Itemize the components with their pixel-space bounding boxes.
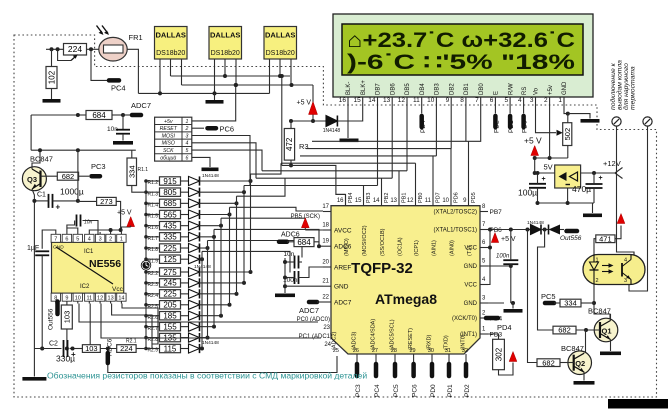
svg-text:6: 6 <box>65 237 68 243</box>
capacitor 10n (ADC6) <box>284 251 303 269</box>
svg-text:2: 2 <box>596 278 599 284</box>
net label PD2 (LCD) <box>493 104 500 133</box>
svg-text:(XTAL2/TOSC2): (XTAL2/TOSC2) <box>434 210 477 216</box>
svg-text:100µ: 100µ <box>518 188 537 198</box>
svg-text:302: 302 <box>494 347 503 361</box>
svg-text:PC5: PC5 <box>541 292 556 301</box>
svg-text:103: 103 <box>62 311 71 324</box>
svg-text:805: 805 <box>163 188 177 197</box>
net label PC6 <box>208 125 235 134</box>
wire opto pin2 down <box>592 285 610 319</box>
svg-text:PC6: PC6 <box>412 384 419 397</box>
svg-text:GND: GND <box>464 264 478 270</box>
wire Q2 collector to Q1 base <box>585 330 587 353</box>
svg-text:1N4148: 1N4148 <box>202 340 219 346</box>
svg-text:14: 14 <box>368 97 376 104</box>
clock icon on ladder rail <box>141 260 151 270</box>
svg-text:1N4148: 1N4148 <box>194 264 211 270</box>
svg-text:(ADC5/SCL): (ADC5/SCL) <box>390 319 396 350</box>
svg-text:273: 273 <box>100 197 113 206</box>
photoresistor FR1 <box>97 26 143 62</box>
svg-text:(AIN1): (AIN1) <box>432 240 438 256</box>
svg-text:1: 1 <box>185 119 188 125</box>
svg-text:685: 685 <box>163 199 177 208</box>
svg-text:5V: 5V <box>544 163 553 172</box>
svg-text:Vo: Vo <box>534 87 540 95</box>
wire PC0 to NE556 pin10 <box>79 304 318 323</box>
wire FR1 right lead <box>127 49 138 93</box>
resistor 682 (Q2 base) <box>537 358 574 367</box>
svg-text:+5 V: +5 V <box>297 100 312 107</box>
svg-text:(OC1A): (OC1A) <box>398 237 404 256</box>
svg-text:1: 1 <box>120 237 123 243</box>
svg-text:1N4148: 1N4148 <box>202 173 219 179</box>
+5V arrow supply <box>524 136 542 176</box>
svg-text:DB1: DB1 <box>464 83 470 95</box>
temperature sensor U2 DALLAS DS18b20 <box>155 27 188 60</box>
net label PC3 <box>79 162 106 176</box>
svg-text:3: 3 <box>99 237 102 243</box>
svg-text:565: 565 <box>163 210 177 219</box>
svg-text:SCK: SCK <box>163 148 174 154</box>
svg-text:471: 471 <box>599 234 612 243</box>
svg-text:Q3: Q3 <box>27 175 37 184</box>
resistor 682 (PC3) <box>57 172 78 181</box>
svg-text:DB0: DB0 <box>479 83 485 95</box>
resistor 684 (ADC7) <box>86 111 112 120</box>
trimmer resistor 224 <box>64 44 87 56</box>
svg-text:102: 102 <box>47 70 56 84</box>
svg-text:VCC: VCC <box>464 246 477 252</box>
svg-text:PD1: PD1 <box>447 384 454 397</box>
svg-text:103: 103 <box>85 344 98 353</box>
svg-text:ADC6: ADC6 <box>334 244 352 251</box>
svg-text:225: 225 <box>163 290 177 299</box>
svg-text:18: 18 <box>322 223 329 229</box>
svg-text:2: 2 <box>544 97 548 104</box>
wire ISP MISO <box>192 143 256 178</box>
ATmega8 bottom pin numbers and functions <box>332 319 469 354</box>
wire Q2 emitter to ground <box>574 372 595 385</box>
wire NE556 pin11 down <box>88 304 92 351</box>
wire Q3 emitter down <box>32 189 34 349</box>
net label ADC7 top <box>112 101 151 117</box>
svg-text:PD0: PD0 <box>522 120 529 133</box>
svg-text:E: E <box>494 91 500 95</box>
capacitor 1uF <box>27 245 49 351</box>
NE556 pin stubs and numbers <box>51 232 126 304</box>
data bus staircase between LCD, ladder and ATmega <box>244 104 469 206</box>
svg-text:MOSI: MOSI <box>162 133 176 139</box>
svg-text:MISO: MISO <box>162 141 175 147</box>
svg-text:RESET: RESET <box>160 126 178 132</box>
resistor 684 (ADC6) <box>287 238 314 247</box>
svg-text:7: 7 <box>475 97 479 104</box>
svg-text:5: 5 <box>76 237 79 243</box>
backlight diode 1N4148 <box>323 116 341 135</box>
svg-text:(RXD): (RXD) <box>427 335 433 350</box>
net label PD1 (LCD) <box>508 104 515 133</box>
svg-text:Обозначения резисторов показан: Обозначения резисторов показаны в соотве… <box>47 371 367 381</box>
ground under 102 <box>43 89 61 103</box>
svg-text:245: 245 <box>163 279 177 288</box>
svg-text:+12V: +12V <box>603 159 621 168</box>
svg-text:DALLAS: DALLAS <box>155 31 185 40</box>
svg-text:DB4: DB4 <box>420 83 426 95</box>
svg-text:Q2: Q2 <box>575 359 585 368</box>
svg-text:(XTAL1/TOSC1): (XTAL1/TOSC1) <box>434 228 477 234</box>
svg-text:(ADC3): (ADC3) <box>352 331 358 350</box>
svg-text:3: 3 <box>185 133 188 139</box>
svg-text:PC3: PC3 <box>91 162 106 171</box>
svg-text:12: 12 <box>398 97 406 104</box>
wire LCD BLK- to ground <box>340 104 359 142</box>
temperature sensor U4 DALLAS DS18b20 <box>264 27 297 60</box>
svg-text:6: 6 <box>490 97 494 104</box>
svg-text:Out556: Out556 <box>48 308 55 330</box>
svg-text:435: 435 <box>163 221 177 230</box>
svg-text:PD4: PD4 <box>497 323 512 332</box>
net label PD4 right <box>486 318 512 332</box>
svg-text:335: 335 <box>163 233 177 242</box>
wire +5V node to R3 <box>289 119 326 129</box>
svg-text:275: 275 <box>163 268 177 277</box>
wire 684 left lead <box>31 113 86 150</box>
trimmer 502 contrast <box>536 104 572 158</box>
LCD display module with temperature readout <box>333 14 593 97</box>
svg-text:BC847: BC847 <box>561 344 584 353</box>
timer IC NE556 (IC1/IC2) <box>52 242 124 293</box>
capacitor 100n (VCC) <box>496 230 518 304</box>
svg-text:470µ: 470µ <box>572 184 591 194</box>
svg-text:GND: GND <box>562 81 568 95</box>
svg-text:16: 16 <box>339 97 347 104</box>
boiler connection note <box>609 60 637 110</box>
LCD pin labels 16..1 <box>339 80 568 104</box>
svg-text:+5 V: +5 V <box>501 236 516 243</box>
svg-text:R2.1: R2.1 <box>126 339 137 345</box>
svg-text:13: 13 <box>108 296 114 302</box>
svg-text:13: 13 <box>383 97 391 104</box>
svg-text:11: 11 <box>86 296 92 302</box>
svg-text:NE556: NE556 <box>89 258 121 270</box>
svg-text:4: 4 <box>518 97 522 104</box>
svg-text:3: 3 <box>624 278 627 284</box>
svg-text:PD5: PD5 <box>471 192 477 203</box>
svg-text:224: 224 <box>120 344 133 353</box>
ground for sensors <box>206 93 224 103</box>
svg-text:(AIN0): (AIN0) <box>450 240 456 256</box>
wire junction to PC4 <box>91 49 107 80</box>
svg-text:PB0: PB0 <box>418 193 424 203</box>
svg-text:BLK+: BLK+ <box>361 80 367 95</box>
svg-text:+: + <box>56 203 61 212</box>
ladder bus vertical and jog wires <box>202 163 323 348</box>
svg-text:Q1: Q1 <box>602 327 612 336</box>
microcontroller U1 ATmega8 TQFP-32 <box>331 206 480 354</box>
svg-text:334: 334 <box>127 165 136 178</box>
svg-text:10n: 10n <box>107 126 118 133</box>
wire node to trimmer <box>46 47 64 51</box>
sensor ground rail <box>138 91 269 95</box>
VCC riser <box>480 230 492 285</box>
ATmega8 right pin labels <box>434 204 503 339</box>
svg-text:PD3: PD3 <box>490 332 503 339</box>
svg-text:PC4: PC4 <box>111 84 126 93</box>
regulator ground rail <box>536 188 603 217</box>
svg-text:15: 15 <box>355 198 362 204</box>
svg-text:22: 22 <box>322 295 329 301</box>
svg-text:DALLAS: DALLAS <box>265 31 295 40</box>
svg-text:ADC7: ADC7 <box>131 101 151 110</box>
svg-text:205: 205 <box>163 301 177 310</box>
svg-text:+5 V: +5 V <box>117 210 132 217</box>
wire Q3 collector <box>32 150 40 169</box>
svg-text:RS: RS <box>522 87 528 95</box>
svg-text:PB3: PB3 <box>366 193 372 203</box>
svg-text:115: 115 <box>164 344 177 353</box>
svg-text:2: 2 <box>184 126 188 132</box>
svg-text:9: 9 <box>446 97 450 104</box>
wire ISP RESET to PC6 <box>192 127 204 129</box>
bottom RC wire <box>34 347 146 351</box>
ISP connector J1 <box>155 117 192 161</box>
resistor ladder R1.2-R2.9 with 1N4148 diodes <box>146 173 253 354</box>
svg-text:(INT0): (INT0) <box>461 334 467 350</box>
svg-text:PD2: PD2 <box>493 120 500 133</box>
wire PD3 to 302 <box>480 334 499 339</box>
svg-text:ADC6: ADC6 <box>107 338 114 356</box>
capacitor 100n (AREF) <box>283 267 323 284</box>
wire regulator output +12V <box>581 159 623 179</box>
ATmega8 left pin labels <box>291 204 352 307</box>
svg-text:100n: 100n <box>496 254 510 260</box>
svg-text:13: 13 <box>390 198 397 204</box>
wire data rail down <box>280 74 284 165</box>
svg-text:ATmega8: ATmega8 <box>375 291 437 307</box>
ATmega8 bottom port net bars PC3-PD2 <box>355 354 471 397</box>
svg-text:12: 12 <box>97 296 103 302</box>
net label Out556 <box>48 302 58 331</box>
ground for LCD <box>581 119 600 123</box>
resistor 102 <box>46 49 57 88</box>
svg-text:9: 9 <box>65 296 68 302</box>
svg-text:DB3: DB3 <box>435 83 441 95</box>
svg-text:(ICP1): (ICP1) <box>414 240 420 256</box>
wire R1.1 to rail <box>132 186 146 193</box>
resistor 273 <box>78 197 121 230</box>
wire pins 5-6 <box>67 221 78 233</box>
svg-text:682: 682 <box>542 358 555 367</box>
screw terminal X1 <box>612 117 621 126</box>
svg-text:(XCK/T0): (XCK/T0) <box>452 316 477 322</box>
diode D2 1N4148 <box>527 220 544 235</box>
svg-text:AREF: AREF <box>334 265 351 272</box>
svg-text:12: 12 <box>407 198 414 204</box>
LCD DB0 drop <box>469 104 481 141</box>
svg-text:1µF: 1µF <box>27 245 39 252</box>
wire PC2 to ADC6 node <box>108 356 337 373</box>
svg-text:IC2: IC2 <box>80 284 90 290</box>
wire terminal X1 to opto pin4 <box>617 126 635 254</box>
screw terminal X2 <box>643 117 652 126</box>
svg-text:11: 11 <box>413 97 420 104</box>
resistor R2.1 224 <box>117 339 137 354</box>
svg-text:10: 10 <box>442 198 449 204</box>
net label PC5 right <box>541 292 556 303</box>
svg-text:20: 20 <box>322 260 329 266</box>
svg-text:C1: C1 <box>37 192 46 199</box>
wire NE556 pin14 <box>122 304 158 349</box>
wire Q1 emitter to ground <box>600 340 621 356</box>
svg-text:(ADC4/SDA): (ADC4/SDA) <box>371 319 377 350</box>
svg-text:10: 10 <box>427 97 435 104</box>
net label ADC6 bottom <box>107 338 114 363</box>
svg-text:10: 10 <box>75 296 81 302</box>
black censor bar <box>608 399 668 409</box>
svg-text:GND: GND <box>464 301 478 307</box>
svg-text:Out556: Out556 <box>560 235 582 242</box>
svg-text:682: 682 <box>62 172 75 181</box>
+5V arrow AVCC <box>301 218 323 230</box>
svg-text:1N4148: 1N4148 <box>527 220 544 226</box>
svg-text:+5 V: +5 V <box>524 136 542 146</box>
svg-text:(SS/OC1B): (SS/OC1B) <box>380 228 386 256</box>
svg-text:+: + <box>71 350 76 359</box>
svg-text:PD6: PD6 <box>454 192 460 203</box>
capacitor 10n (556) <box>77 215 99 236</box>
svg-text:16: 16 <box>337 198 344 204</box>
net label PD4 (LCD DB4) <box>420 104 427 133</box>
svg-text:682: 682 <box>558 326 571 335</box>
ground bottom-left <box>22 349 46 381</box>
transistor Q2 BC847 <box>561 344 592 375</box>
GND riser <box>480 264 513 303</box>
svg-text:PD1: PD1 <box>508 120 515 133</box>
wire diode to LCD BLK+ <box>337 104 362 121</box>
svg-text:PD2: PD2 <box>464 384 471 397</box>
svg-text:+: + <box>542 176 546 183</box>
svg-text:11: 11 <box>425 198 432 204</box>
wire LCD GND pin <box>564 104 590 123</box>
wire Q3 base to 682 <box>41 175 58 177</box>
svg-text:R/W: R/W <box>508 83 514 95</box>
svg-text:1: 1 <box>558 97 562 104</box>
capacitor 100u <box>518 171 546 203</box>
svg-text:DS18b20: DS18b20 <box>211 50 240 57</box>
svg-text:225: 225 <box>163 244 177 253</box>
svg-text:DB7: DB7 <box>376 83 382 95</box>
svg-text:DB5: DB5 <box>405 83 411 95</box>
ladder common rail <box>144 179 148 350</box>
wire ISP +5v <box>192 83 238 121</box>
svg-text:+: + <box>599 175 603 182</box>
ATmega8 top pin labels <box>337 192 477 256</box>
svg-text:C2: C2 <box>49 341 58 348</box>
+5V arrow on sensor supply <box>297 85 318 121</box>
capacitor C2 330u <box>49 340 76 364</box>
svg-text:термостата: термостата <box>630 66 637 110</box>
voltage regulator 5V <box>535 163 581 189</box>
svg-text:502: 502 <box>563 128 572 141</box>
one-wire data rail <box>171 74 291 78</box>
svg-text:PD4: PD4 <box>420 120 427 133</box>
svg-text:4: 4 <box>185 141 188 147</box>
wire NE556 pin13 <box>112 304 152 345</box>
svg-text:21: 21 <box>322 279 329 285</box>
svg-text:1N4148: 1N4148 <box>323 128 341 134</box>
wire R3 bottom data line to PB4 <box>282 160 346 206</box>
svg-text:ADC7: ADC7 <box>299 306 319 315</box>
svg-text:14: 14 <box>373 198 380 204</box>
svg-text:DB6: DB6 <box>390 83 396 95</box>
transistor Q3 BC847 <box>22 155 53 191</box>
svg-text:FR1: FR1 <box>129 33 143 42</box>
svg-text:915: 915 <box>163 177 177 186</box>
optocoupler U3 <box>583 255 645 285</box>
wire PC1 to NE556 pin12 <box>101 304 321 339</box>
svg-text:15: 15 <box>353 97 361 104</box>
svg-text:5: 5 <box>185 148 188 154</box>
svg-text:14: 14 <box>118 296 124 302</box>
svg-text:7: 7 <box>54 237 57 243</box>
wire ISP GND <box>192 157 210 167</box>
resistor 682 (Q1 base) <box>553 326 600 335</box>
svg-text:(MOSI/OC2): (MOSI/OC2) <box>362 225 368 256</box>
wire ISP SCK <box>192 150 262 171</box>
svg-text:PC1 (ADC1): PC1 (ADC1) <box>299 334 332 340</box>
svg-text:472: 472 <box>285 137 294 151</box>
capacitor 470u <box>572 173 603 203</box>
svg-text:PB7: PB7 <box>490 209 503 216</box>
svg-text:3: 3 <box>530 97 534 104</box>
svg-text:VCC: VCC <box>464 283 477 289</box>
analog ground rail <box>275 258 323 297</box>
transistor Q1 BC847 <box>588 307 618 342</box>
svg-text:2: 2 <box>109 237 112 243</box>
svg-text:24: 24 <box>324 342 331 348</box>
svg-text:PC4: PC4 <box>374 384 381 397</box>
resistor 103 (556 left) <box>61 304 72 351</box>
svg-text:+5v: +5v <box>164 119 173 125</box>
svg-text:10n: 10n <box>284 251 295 258</box>
capacitor 10n (ADC7) <box>107 115 133 145</box>
DALLAS sensor pin wires <box>160 59 291 93</box>
svg-text:PB4: PB4 <box>348 193 354 203</box>
svg-text:6: 6 <box>185 155 188 161</box>
resistor R1.1 334 <box>127 158 148 186</box>
diode D3 1N4148 <box>541 225 560 235</box>
+5V arrow at PD3 pullup <box>499 352 517 376</box>
svg-text:(ADC2): (ADC2) <box>332 331 338 350</box>
net label ADC7 <box>299 302 323 315</box>
svg-text:BC847: BC847 <box>30 155 53 164</box>
svg-text:PC3: PC3 <box>355 384 362 397</box>
wire opto pin4 up <box>633 252 635 255</box>
svg-text:5: 5 <box>504 97 508 104</box>
svg-text:PC5: PC5 <box>393 384 400 397</box>
svg-text:19: 19 <box>322 239 329 245</box>
net label Out556 right <box>560 230 582 243</box>
resistor 302 <box>493 339 505 369</box>
svg-text:8: 8 <box>460 97 464 104</box>
wire Q1 collector <box>610 314 612 321</box>
svg-text:DALLAS: DALLAS <box>210 31 240 40</box>
+5V rail to sensors <box>182 83 314 87</box>
Q3 collector rail <box>31 148 136 152</box>
svg-text:1000µ: 1000µ <box>60 187 84 197</box>
pin 23 PC0 <box>297 317 331 331</box>
